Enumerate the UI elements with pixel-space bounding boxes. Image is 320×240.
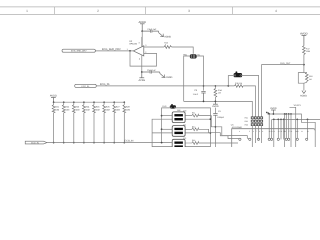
- svg-text:10M: 10M: [76, 108, 80, 111]
- capacitor C6: [142, 30, 158, 33]
- svg-text:R33: R33: [245, 123, 248, 126]
- rail nodes: [268, 113, 308, 120]
- svg-text:10M: 10M: [126, 108, 130, 111]
- wire stub box1 shield pin: [185, 118, 210, 120]
- svg-text:R18: R18: [309, 75, 312, 78]
- connector ECG_SHD_DRV (off-page oval): [62, 49, 95, 52]
- wire row2 step to IC: [199, 129, 239, 138]
- wire bank rail: [54, 101, 125, 103]
- resistor R26: [103, 101, 105, 103]
- electrode connector J12: [172, 139, 185, 150]
- wire row3 to IC: [199, 142, 239, 144]
- electrode connector J10: [172, 112, 185, 123]
- resistor R21: [53, 101, 55, 103]
- wire bus2 (bottom pins): [152, 119, 172, 146]
- svg-text:10M: 10M: [116, 108, 120, 111]
- wire +in to R16: [144, 46, 164, 48]
- connector ECG_IN flag: [25, 141, 47, 144]
- IC U1 box: [232, 129, 316, 147]
- svg-text:1: 1: [26, 9, 28, 13]
- ferrite bead FB2 (dark): [170, 104, 176, 109]
- power AVDD (op-amp supply): [140, 24, 145, 31]
- wire RLD right shield bus: [176, 108, 210, 147]
- svg-text:C6 0.1uF: C6 0.1uF: [147, 28, 157, 31]
- svg-text:10M: 10M: [96, 108, 100, 111]
- node shield junction 1: [210, 118, 212, 120]
- wire blob right: [242, 75, 259, 116]
- wire RLD left to bus: [162, 108, 170, 143]
- node RLD_OUT junction: [303, 64, 305, 66]
- wire rail2: [272, 118, 320, 120]
- capacitor C9 line: [214, 108, 216, 147]
- svg-text:AVDD: AVDD: [300, 31, 308, 35]
- svg-text:AGND: AGND: [164, 36, 171, 39]
- wire stubs RLD bus to boxes: [162, 116, 173, 130]
- node blob tap: [227, 85, 229, 87]
- wire: [303, 55, 305, 73]
- svg-text:1M: 1M: [218, 92, 221, 95]
- svg-text:4: 4: [275, 9, 277, 13]
- resistor bank R21-R28: [52, 101, 130, 143]
- wire to ground: [303, 83, 305, 90]
- node R14 top: [215, 85, 217, 87]
- svg-text:VCAP1: VCAP1: [294, 104, 302, 107]
- border frame top strip: [0, 7, 320, 14]
- svg-text:R15 1M: R15 1M: [235, 82, 242, 85]
- resistor R12 (row2): [185, 128, 198, 131]
- ground AGND (right): [302, 91, 306, 94]
- border zone numbers: [26, 9, 277, 13]
- resistor R11 (row1): [185, 114, 198, 117]
- capacitor C7 (polarized blob): [234, 71, 243, 77]
- wire ECG_RL to grid: [243, 86, 255, 117]
- resistor R13 (row3): [185, 142, 198, 145]
- wire VCAP1: [290, 107, 296, 147]
- right column: power AVDD: [302, 35, 307, 45]
- wire op-amp V-: [141, 55, 143, 72]
- svg-text:0: 0: [165, 44, 166, 47]
- resistor R14 (vertical): [214, 86, 217, 102]
- node shield bus taps: [161, 115, 163, 117]
- resistor R23: [73, 101, 75, 103]
- svg-text:AVDD: AVDD: [139, 20, 147, 24]
- node C8 top: [203, 85, 205, 87]
- svg-text:R13: R13: [192, 139, 195, 142]
- svg-text:10M: 10M: [86, 108, 90, 111]
- svg-text:ECG_RL: ECG_RL: [81, 85, 90, 88]
- svg-text:10M: 10M: [55, 108, 59, 111]
- svg-text:AGND: AGND: [165, 76, 172, 79]
- node output/feedback junction: [129, 50, 131, 52]
- resistor R24: [83, 101, 85, 103]
- svg-text:R11: R11: [192, 112, 195, 115]
- wire row1 step to IC: [199, 116, 249, 140]
- wire drops into IC: [269, 114, 307, 147]
- capacitor C8: [201, 91, 205, 101]
- resistor R28: [123, 101, 125, 103]
- svg-text:R12: R12: [192, 125, 195, 128]
- node bus/RLD junction: [161, 142, 163, 144]
- resistor grid RLD network: [251, 117, 253, 119]
- node V- junction: [141, 71, 143, 73]
- wire ECG_RL: [96, 85, 234, 87]
- wire ECG_IN bus: [47, 142, 172, 144]
- resistor R16: [164, 46, 172, 49]
- wire feedback loop: [130, 51, 157, 66]
- svg-text:1.5nF: 1.5nF: [193, 93, 199, 96]
- resistor R17 (vertical): [303, 46, 306, 55]
- resistor R25: [93, 101, 95, 103]
- svg-text:AVDD: AVDD: [270, 107, 277, 110]
- node C9 row1 junction: [215, 126, 217, 128]
- svg-text:10M: 10M: [65, 108, 69, 111]
- wire bead left leg: [184, 56, 191, 101]
- svg-text:10M: 10M: [306, 50, 310, 53]
- wire stub box2 shield pin: [185, 132, 210, 134]
- op-amp U2: [133, 46, 144, 56]
- svg-text:AGND: AGND: [300, 94, 307, 97]
- svg-text:ECG_SHD_DRV: ECG_SHD_DRV: [102, 48, 121, 51]
- svg-text:R32: R32: [245, 120, 248, 123]
- power AVDD (resistor bank): [51, 98, 56, 103]
- svg-text:1M: 1M: [309, 78, 312, 81]
- power AVSS: [139, 72, 144, 78]
- svg-text:AVSS: AVSS: [139, 79, 146, 82]
- resistor R27: [113, 101, 115, 103]
- svg-text:ECG_SHD_DRV: ECG_SHD_DRV: [71, 50, 87, 53]
- wire RLD_OUT: [262, 65, 304, 117]
- ferrite bead FB1: [190, 54, 197, 58]
- ground AGND (mid): [160, 72, 165, 78]
- svg-text:OPA336: OPA336: [129, 42, 138, 45]
- svg-text:AVDD: AVDD: [50, 95, 57, 98]
- resistor grid (RLD network): [245, 112, 270, 147]
- wire rail C8/R14 bottom: [184, 101, 253, 116]
- svg-text:3: 3: [188, 9, 190, 13]
- resistor R15 (inline ECG_RL): [235, 85, 244, 88]
- power AVDD (rail1): [271, 110, 276, 114]
- wire blob branch: [228, 76, 233, 86]
- wire R16 to bead: [172, 47, 194, 54]
- node AVDD junction: [141, 30, 143, 32]
- electrode connector J11: [172, 126, 185, 137]
- resistor R18 with parallel wire: [298, 73, 307, 84]
- wire output to connector: [95, 50, 133, 52]
- IC pin circles: [239, 138, 308, 140]
- svg-text:1000pF: 1000pF: [217, 116, 225, 119]
- svg-text:R31: R31: [245, 117, 248, 120]
- capacitor C5: [142, 71, 160, 74]
- wire: [141, 31, 143, 47]
- svg-text:2: 2: [97, 9, 99, 13]
- svg-text:C5 0.1uF: C5 0.1uF: [147, 69, 157, 72]
- node shield junction 2: [210, 132, 212, 134]
- svg-text:ECG_IN: ECG_IN: [125, 139, 134, 142]
- wire op-amp V+: [141, 37, 143, 47]
- ground AGND (top): [159, 31, 164, 37]
- power AVDD (inverted, on rail): [213, 101, 218, 104]
- svg-text:10M: 10M: [106, 108, 110, 111]
- svg-text:ADS1294R: ADS1294R: [232, 126, 243, 129]
- svg-text:RLD_OUT: RLD_OUT: [280, 62, 291, 65]
- svg-text:ECG_IN: ECG_IN: [31, 141, 39, 144]
- connector ECG_RL (off-page oval): [75, 84, 97, 88]
- resistor R22: [63, 101, 65, 103]
- wire rail1: [267, 114, 315, 147]
- wire bead right leg: [197, 56, 204, 91]
